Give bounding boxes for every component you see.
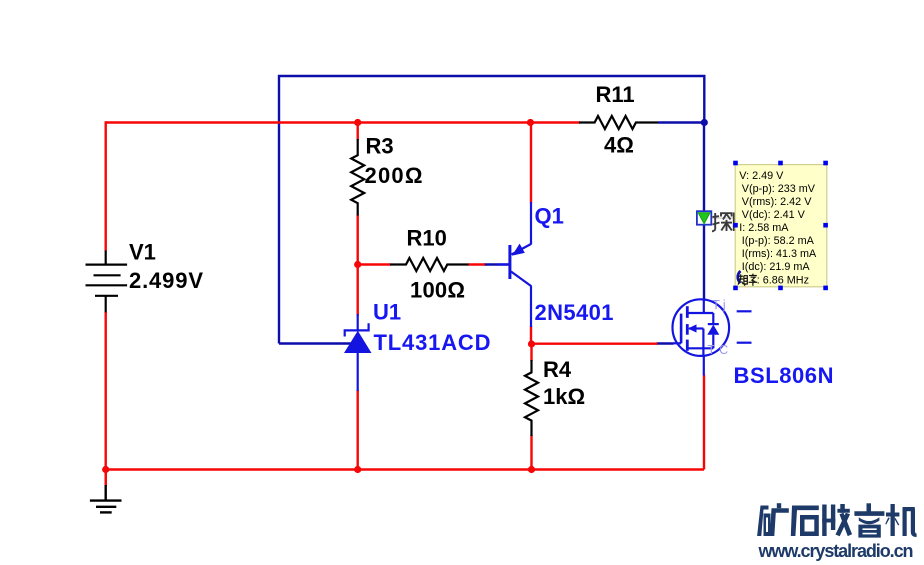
selection handle bottom-left (733, 286, 738, 291)
wire red R4 bottom stub (530, 435, 532, 470)
wire red left vertical upper (104, 121, 106, 251)
junction node U1 anode bottom (354, 466, 361, 473)
svg-text:2N5401: 2N5401 (535, 300, 614, 325)
svg-text:R3: R3 (366, 134, 394, 159)
svg-text:I: 2.58 mA: I: 2.58 mA (739, 222, 789, 234)
ground (90, 485, 122, 512)
wire blue top horizontal net (279, 76, 704, 344)
wire red R10 left segment (358, 263, 391, 265)
glyph 音 (867, 503, 872, 511)
probe green arrow (698, 213, 710, 224)
junction node Q1 collector / R4 top (528, 340, 535, 347)
glyph 机 (891, 504, 895, 536)
wire red Q1 collector bottom vertical (530, 326, 532, 344)
wire blue right vertical to MOSFET drain (703, 123, 705, 302)
MOSFET body diode (707, 325, 719, 335)
svg-text:1kΩ: 1kΩ (543, 384, 585, 409)
wire red top horizontal (106, 121, 580, 123)
svg-text:www.crystalradio.cn: www.crystalradio.cn (758, 541, 914, 561)
label 频率 glyph (hand-drawn) (738, 274, 757, 286)
svg-text:4Ω: 4Ω (604, 133, 634, 158)
svg-text:V(dc): 2.41 V: V(dc): 2.41 V (742, 209, 806, 221)
junction node R4 bottom (528, 466, 535, 473)
wire red R4 top stub (530, 344, 532, 361)
wire red left vertical lower (104, 312, 106, 485)
resistor R11 (579, 116, 658, 129)
svg-text:100Ω: 100Ω (410, 278, 465, 303)
svg-text:BSL806N: BSL806N (734, 363, 834, 388)
svg-text:I(dc): 21.9 mA: I(dc): 21.9 mA (742, 261, 811, 273)
battery V1 (86, 251, 128, 313)
glyph 矿 (757, 506, 768, 537)
selection handle mid-left (733, 223, 738, 228)
junction node R11 right (blue) (701, 119, 708, 126)
probe readout text (739, 170, 817, 286)
selection handle top-mid (778, 161, 783, 166)
selection handle bottom-right (823, 286, 828, 291)
junction node Q1 top (527, 119, 534, 126)
watermark 矿石收音机 (hand-drawn glyphs) (757, 503, 917, 537)
wire red R3 top stub (357, 123, 359, 141)
wire red gate horizontal to MOSFET (532, 343, 658, 345)
svg-text:R4: R4 (543, 357, 572, 382)
svg-text:TL431ACD: TL431ACD (374, 330, 491, 355)
svg-text:200Ω: 200Ω (365, 163, 423, 188)
wire blue MOSFET gate segment (657, 342, 674, 344)
svg-text:TC: TC (708, 343, 733, 357)
MOSFET BSL806N (673, 299, 730, 375)
transistor Q1 (497, 202, 531, 327)
svg-text:I(p-p): 58.2 mA: I(p-p): 58.2 mA (742, 235, 815, 247)
wire red R10 right segment (468, 263, 485, 265)
svg-text:R11: R11 (596, 82, 635, 107)
svg-text:Q1: Q1 (535, 204, 564, 229)
selection handle top-right (823, 161, 828, 166)
svg-text:V(rms): 2.42 V: V(rms): 2.42 V (742, 196, 812, 208)
wire red bottom horizontal (106, 468, 704, 470)
svg-text:V: 2.49 V: V: 2.49 V (739, 170, 784, 182)
probe leader line (711, 217, 736, 219)
MOSFET thermal stub TC (737, 342, 752, 344)
junction node ground (102, 466, 109, 473)
glyph 石 (791, 506, 819, 537)
wire red U1 cathode vertical (357, 265, 359, 317)
glyph 收 (822, 505, 826, 537)
svg-text:2.499V: 2.499V (129, 268, 203, 293)
svg-text:V(p-p): 233 mV: V(p-p): 233 mV (742, 183, 816, 195)
wire blue Q1 base segment (484, 263, 509, 265)
wire blue R11 right segment (658, 121, 704, 123)
wire blue U1 reference horizontal (279, 342, 351, 344)
probe readout box (735, 165, 827, 287)
svg-text:R10: R10 (407, 226, 447, 251)
wire red Q1 emitter top vertical (530, 123, 532, 204)
transistor Q1 emitter arrow (512, 244, 525, 256)
svg-text:U1: U1 (373, 300, 401, 325)
selection handle mid-right (823, 223, 828, 228)
svg-text:I(rms): 41.3 mA: I(rms): 41.3 mA (742, 248, 817, 260)
wire red R3 bottom to R10 node (357, 215, 359, 265)
svg-text:V1: V1 (129, 240, 156, 265)
selection handle bottom-mid (778, 286, 783, 291)
probe arrow box (697, 211, 711, 225)
U1 triangle body (344, 331, 372, 353)
svg-text:Tj: Tj (712, 298, 728, 312)
resistor R4 (525, 360, 538, 436)
MOSFET thermal stub Tj (737, 310, 752, 312)
resistor R3 (351, 139, 364, 216)
shunt regulator U1 TL431 (345, 314, 369, 391)
resistor R10 (390, 258, 469, 271)
wire red MOSFET source vertical (703, 375, 705, 470)
probe label 探针 glyph (hand-drawn, partially hidden) (712, 213, 734, 232)
MOSFET source arrow (688, 324, 697, 332)
svg-text:: 6.86 MHz: : 6.86 MHz (757, 274, 809, 286)
probe current clamp arc (738, 271, 741, 283)
junction node R3 top (354, 119, 361, 126)
junction node R10 left (354, 261, 361, 268)
wire red U1 anode vertical (357, 390, 359, 470)
selection handle top-left (733, 161, 738, 166)
wire red ground stub (104, 470, 106, 487)
